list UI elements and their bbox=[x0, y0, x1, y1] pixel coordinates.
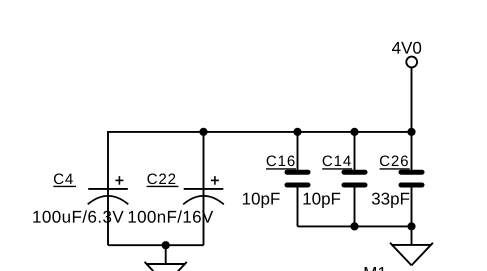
wire: stub to left ground bbox=[165, 245, 167, 264]
underline of C14 bbox=[322, 168, 352, 170]
node: junction dot on left bottom rail bbox=[162, 241, 170, 249]
node: junction dot C16 / top rail bbox=[293, 128, 301, 136]
value 10pF (C16) bbox=[243, 193, 280, 208]
net label M1 bbox=[365, 267, 386, 271]
wire: ceramic bottom rail bbox=[298, 225, 412, 227]
wire: C26 top branch bbox=[411, 132, 413, 172]
node: junction dot C26 / bottom rail bbox=[407, 222, 415, 230]
node: junction dot C14 / top rail bbox=[350, 128, 358, 136]
underline of C16 bbox=[266, 168, 296, 170]
label C14 bbox=[323, 156, 351, 167]
wire: C14 top branch bbox=[354, 132, 356, 172]
ground symbol right bbox=[390, 243, 433, 266]
wire: C22 vertical branch bbox=[203, 132, 205, 245]
wire: main top rail bbox=[108, 131, 412, 133]
node: junction dot C22 / top rail bbox=[199, 128, 207, 136]
wire: C4 vertical branch bbox=[107, 131, 109, 245]
value 100uF/6.3V bbox=[33, 210, 123, 222]
node: junction dot C26 / top rail bbox=[407, 128, 415, 136]
wire: stub to right ground bbox=[411, 226, 413, 245]
capacitor C26 plates bbox=[401, 172, 422, 185]
label C4 bbox=[54, 174, 73, 185]
label C16 bbox=[267, 156, 295, 167]
net label 4V0 bbox=[392, 42, 421, 54]
node: junction dot C14 / bottom rail bbox=[350, 222, 358, 230]
wire: C14 bottom branch bbox=[354, 185, 356, 226]
terminal pad 4V0 bbox=[406, 57, 417, 68]
underline of C4 bbox=[53, 185, 76, 187]
value 10pF (C14) bbox=[303, 193, 340, 208]
wire: 4V0 supply branch bbox=[411, 67, 413, 132]
wire: C16 top branch bbox=[297, 132, 299, 172]
capacitor C22 (polarized) bbox=[183, 176, 224, 204]
label C22 bbox=[147, 174, 175, 185]
wire: C26 bottom branch bbox=[411, 185, 413, 226]
underline of C26 bbox=[380, 168, 410, 170]
value 33pF bbox=[372, 193, 409, 208]
label C26 bbox=[380, 156, 408, 167]
wire: bottom rail between C4 and C22 bbox=[108, 244, 204, 246]
capacitor C16 plates bbox=[287, 172, 308, 185]
wire: C16 bottom branch bbox=[297, 185, 299, 226]
ground symbol left bbox=[145, 262, 187, 271]
value 100nF/16V bbox=[129, 210, 214, 222]
capacitor C14 plates bbox=[344, 172, 365, 185]
capacitor C4 (polarized) bbox=[88, 176, 129, 204]
underline of C22 bbox=[147, 185, 179, 187]
